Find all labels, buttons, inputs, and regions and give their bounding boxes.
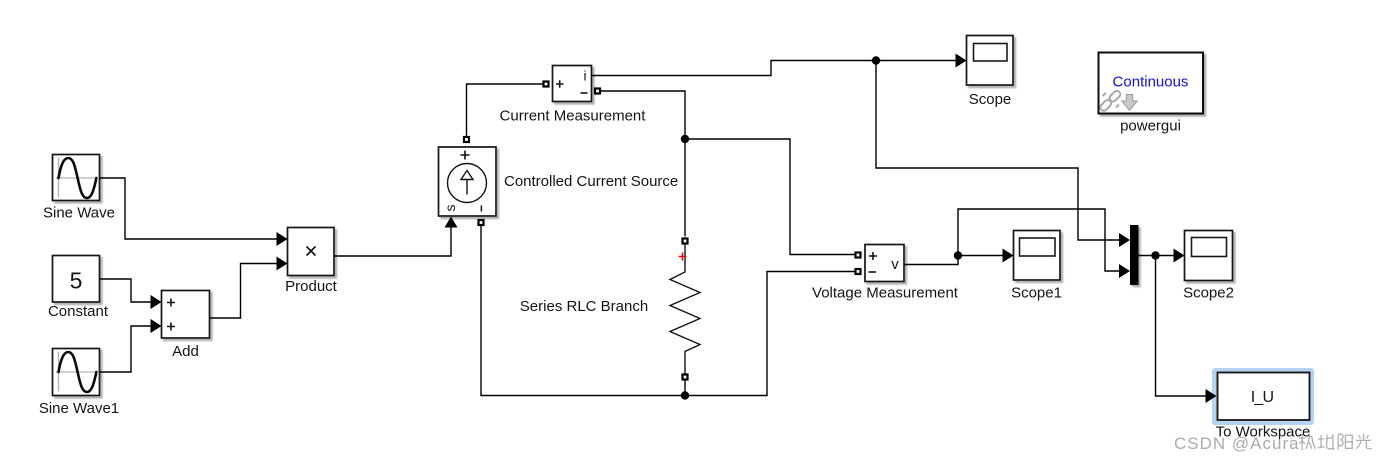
- to workspace block I_U (selected, blue halo): [1212, 368, 1314, 425]
- wire v junction -> Mux in2: [958, 209, 1130, 278]
- svg-text:Continuous: Continuous: [1113, 74, 1189, 91]
- wire junction -> RLC branch top (electrical): [684, 139, 686, 237]
- svg-text:Voltage Measurement: Voltage Measurement: [812, 285, 959, 302]
- watermark glyph yang: [1338, 434, 1352, 450]
- node junction at v output: [954, 251, 962, 259]
- port controlled current source +: [463, 136, 470, 143]
- wire RLC bottom -> bottom rail node (electrical): [684, 381, 686, 396]
- svg-text:Sine Wave: Sine Wave: [43, 205, 115, 222]
- svg-text:Scope1: Scope1: [1011, 285, 1062, 302]
- svg-text:powergui: powergui: [1120, 118, 1181, 135]
- adder block Add: [162, 291, 210, 339]
- scope block Scope: [967, 36, 1014, 86]
- port voltage measurement -: [854, 268, 861, 275]
- svg-text:i: i: [583, 68, 586, 84]
- node junction at Mux output: [1151, 251, 1159, 259]
- port RLC branch top: [681, 237, 688, 244]
- svg-text:Scope: Scope: [969, 91, 1012, 108]
- block Sine Wave1: [53, 349, 100, 396]
- powergui block: [1099, 53, 1204, 114]
- multiplier block Product: [288, 228, 335, 276]
- controlled current source block: [439, 147, 497, 216]
- wire Sine Wave -> Product in1: [100, 178, 288, 246]
- wire Product -> controlled current source s input: [334, 217, 458, 257]
- svg-text:Constant: Constant: [48, 303, 109, 320]
- wire voltage measurement v -> Scope1: [904, 249, 1014, 265]
- node junction bottom rail: [681, 391, 689, 399]
- svg-text:Sine Wave1: Sine Wave1: [39, 400, 119, 417]
- svg-text:Series RLC Branch: Series RLC Branch: [520, 298, 648, 315]
- wire Mux junction -> To Workspace: [1156, 256, 1217, 404]
- watermark glyph guang: [1356, 434, 1372, 449]
- wire i-line junction -> Mux in1: [876, 61, 1130, 248]
- port voltage measurement +: [854, 251, 861, 258]
- watermark glyph ji: [1299, 434, 1315, 450]
- icon broken link (powergui): [1099, 89, 1122, 112]
- block Constant: [53, 256, 100, 303]
- svg-text:Controlled Current Source: Controlled Current Source: [504, 173, 678, 190]
- svg-text:I_U: I_U: [1251, 389, 1274, 406]
- wire current measurement - -> node above RLC (electrical): [598, 91, 686, 139]
- scope block Scope2: [1185, 231, 1233, 281]
- svg-text:Add: Add: [172, 343, 199, 360]
- port current measurement +: [542, 80, 549, 87]
- svg-text:Scope2: Scope2: [1183, 285, 1234, 302]
- resistor Series RLC Branch: [670, 245, 700, 374]
- port RLC branch bottom: [681, 373, 688, 380]
- svg-text:Current Measurement: Current Measurement: [500, 108, 647, 125]
- wire Sine Wave1 -> Add in2: [100, 319, 162, 372]
- port controlled current source -: [477, 219, 484, 226]
- wire Constant -> Add in1: [100, 279, 162, 309]
- voltage measurement block: [865, 245, 904, 282]
- current measurement block: [553, 66, 592, 102]
- svg-text:v: v: [891, 256, 899, 273]
- wire Add -> Product in2: [210, 257, 288, 319]
- port current measurement -: [594, 87, 601, 94]
- watermark glyph di: [1318, 434, 1335, 449]
- wire current measurement i -> Scope: [592, 54, 967, 76]
- svg-text:5: 5: [70, 268, 83, 294]
- node junction at i-line: [872, 56, 880, 64]
- watermark CSDN @Acura: [1174, 434, 1300, 453]
- mux Mux: [1130, 225, 1139, 285]
- svg-text:s: s: [442, 205, 458, 212]
- block Sine Wave: [53, 155, 100, 201]
- node junction above RLC branch: [681, 135, 689, 143]
- wire junction -> voltage measurement + (electrical): [685, 139, 855, 255]
- wire controlled current source + -> current measurement + (electrical): [467, 84, 547, 140]
- polarity mark + (red): [679, 253, 687, 261]
- svg-text:Product: Product: [285, 278, 338, 295]
- wire Mux out -> Scope2: [1139, 249, 1185, 263]
- icon down arrow (powergui): [1122, 95, 1138, 111]
- scope block Scope1: [1014, 231, 1061, 281]
- wire bottom rail -> voltage measurement - (electrical): [685, 272, 855, 396]
- wire controlled current source - -> bottom rail (electrical): [481, 226, 685, 396]
- svg-text:CSDN @Acura: CSDN @Acura: [1174, 434, 1300, 453]
